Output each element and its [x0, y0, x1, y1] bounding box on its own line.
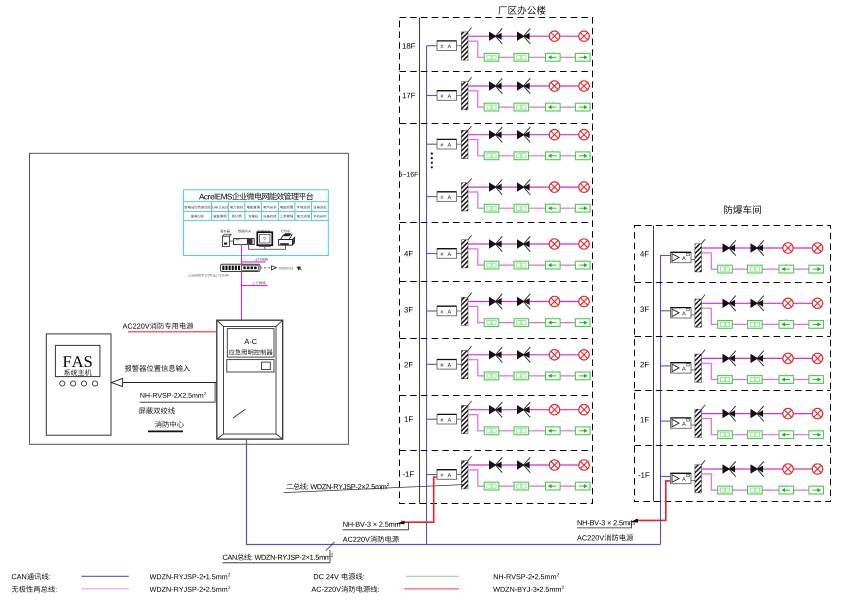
exit sign 18F-G3	[546, 53, 561, 61]
wire lamp row W3F	[702, 302, 824, 304]
wire riser branch -1F	[427, 474, 438, 476]
emergency lamp W3F-L2	[812, 298, 822, 308]
wire device to wall	[457, 310, 462, 312]
exit sign W4F-G3	[779, 265, 794, 273]
internet dashed arrow	[260, 267, 272, 269]
wire exit-sign row 17F	[468, 91, 590, 107]
FAS indicator 1	[60, 381, 65, 386]
arrow workshop supply	[631, 519, 639, 523]
exit sign 5-16F-b-G2	[514, 204, 529, 212]
FAS indicator 2	[71, 381, 76, 386]
label fire center	[155, 421, 184, 428]
cell 电力运维	[297, 215, 310, 218]
exit sign W4F-G2	[748, 265, 763, 273]
label cloud network	[188, 274, 229, 278]
emergency luminaire 2F-E2	[517, 350, 525, 359]
floor divider	[635, 445, 831, 447]
wire riser branch W1F	[660, 420, 671, 422]
FAS indicator 3	[82, 381, 87, 386]
emergency lamp W1F-L2	[812, 408, 822, 418]
floor divider	[635, 390, 831, 392]
title workshop	[724, 205, 761, 214]
label AC220V workshop	[577, 534, 633, 541]
distribution device A (W4F)	[671, 252, 692, 262]
wire device to wall	[457, 196, 462, 198]
exit sign 5-16F-b-G1	[484, 204, 499, 212]
exit sign W2F-G1	[718, 376, 733, 384]
exit sign 2F-G3	[546, 372, 561, 380]
building column line	[419, 18, 421, 504]
wire uplink	[241, 245, 243, 321]
cell 电能管理	[247, 206, 260, 209]
wire device to wall	[691, 259, 695, 261]
floor divider	[400, 395, 593, 397]
wire exit-sign row 5-16F-a	[468, 140, 590, 156]
cable gateway-monitor-printer	[249, 245, 286, 250]
exit sign W3F-G1	[718, 321, 733, 329]
legend CAN line	[12, 573, 50, 580]
emergency lamp 3F-L1	[549, 296, 559, 306]
emergency lamp W4F-L1	[783, 243, 793, 253]
wire lamp row 2F	[468, 354, 590, 356]
exit sign 5-16F-b-G3	[546, 204, 561, 212]
exit sign 1F-G4	[575, 427, 590, 435]
wire AC220V office	[404, 477, 437, 522]
cabinet panel 2	[227, 360, 274, 372]
wire device to wall	[691, 424, 695, 426]
floor label 3F w	[640, 307, 648, 313]
exit sign 5-16F-a-G2	[514, 152, 529, 160]
wall mount hatch (1F)	[461, 405, 468, 433]
distribution device A (18F)	[437, 41, 457, 51]
wire riser branch 1F	[427, 418, 438, 420]
wire alarm position signal	[111, 382, 217, 384]
wire exit-sign row 3F	[468, 306, 590, 322]
emergency lamp 4F-L2	[579, 239, 589, 249]
label AC220V office	[343, 536, 399, 543]
wire exit-sign row W1F	[702, 419, 824, 435]
emergency luminaire 1F-E1	[489, 405, 497, 414]
label AC220V dedicated supply	[123, 322, 194, 329]
distribution device A (W-1F)	[671, 473, 692, 483]
emergency luminaire W4F-E2	[751, 243, 759, 252]
wire riser branch W2F	[660, 365, 671, 367]
emergency lamp 17F-L1	[549, 81, 559, 91]
wire riser office building	[426, 46, 428, 545]
floor label 1F w	[641, 417, 649, 422]
signal arrow	[111, 378, 122, 386]
emergency lamp 5-16F-a-L1	[549, 130, 559, 140]
emergency lamp 5-16F-b-L2	[579, 182, 589, 192]
wire device to wall	[691, 369, 695, 371]
emergency luminaire W-1F-E1	[723, 464, 731, 473]
emergency lamp 5-16F-b-L1	[549, 182, 559, 192]
legend AC220V line	[311, 586, 378, 593]
floor label -1F w	[638, 472, 649, 477]
emergency lamp W4F-L2	[812, 243, 822, 253]
cell 变电站综合自动化	[184, 206, 210, 209]
wall mount hatch (17F)	[461, 82, 468, 110]
wire device to wall	[457, 363, 462, 365]
controller cabinet outline	[217, 320, 283, 439]
exit sign W2F-G4	[809, 376, 824, 384]
exit sign W3F-G4	[809, 321, 824, 329]
wire lamp row -1F	[468, 464, 590, 466]
wall mount hatch (W1F)	[695, 409, 702, 437]
exit sign -1F-G4	[575, 482, 590, 490]
exit sign -1F-G2	[514, 482, 529, 490]
emergency luminaire 5-16F-a-E1	[489, 130, 497, 139]
exit sign 4F-G3	[546, 261, 561, 269]
workshop outline	[635, 226, 831, 502]
ethernet switch	[220, 264, 260, 271]
exit sign W1F-G2	[748, 431, 763, 439]
emergency luminaire -1F-E1	[489, 460, 497, 469]
floor divider	[400, 71, 593, 73]
floor divider	[635, 336, 831, 338]
title office building	[498, 6, 545, 15]
wall mount hatch (-1F)	[461, 461, 468, 489]
emergency luminaire 5-16F-b-E1	[489, 182, 497, 191]
wire device to wall	[457, 253, 462, 255]
wire uplink branch upper	[242, 261, 266, 263]
wire lamp row 3F	[468, 301, 590, 303]
emergency lamp W2F-L2	[812, 353, 822, 363]
wire riser branch 5-16F-b	[427, 196, 438, 198]
emergency luminaire 5-16F-b-E2	[517, 182, 525, 191]
wire riser branch 17F	[427, 95, 438, 97]
floor divider	[400, 123, 593, 125]
FAS indicator 4	[92, 381, 97, 386]
floor label 2F	[404, 362, 412, 367]
wire device to wall	[457, 474, 462, 476]
emergency luminaire W3F-E2	[751, 299, 759, 308]
wire AC220V workshop	[637, 481, 671, 521]
exit sign W-1F-G2	[748, 486, 763, 494]
cell 充电桩	[248, 215, 258, 218]
floor label 17F	[403, 93, 416, 98]
label monitor	[258, 230, 271, 233]
distribution device A (17F)	[437, 91, 457, 101]
floor divider	[400, 281, 593, 283]
floor label 18F	[403, 43, 416, 49]
cell 电气安全	[264, 206, 277, 209]
exit sign 4F-G1	[484, 261, 499, 269]
cell 设备检修	[263, 215, 276, 218]
wire lamp row 5-16F-a	[468, 134, 590, 136]
wire lamp row 18F	[468, 35, 590, 37]
cell 工单管理	[280, 215, 293, 218]
wire device to wall	[457, 45, 462, 47]
exit sign 3F-G1	[484, 319, 499, 327]
cell 分布式光伏	[212, 206, 228, 209]
distribution device A (5-16F-b)	[437, 192, 457, 202]
emergency luminaire 3F-E2	[517, 297, 525, 306]
exit sign W3F-G2	[748, 321, 763, 329]
exit sign 3F-G4	[575, 319, 590, 327]
wifi icon	[297, 267, 301, 271]
workshop column line	[653, 226, 655, 502]
emergency luminaire 4F-E1	[489, 239, 497, 248]
emergency lamp W2F-L1	[783, 353, 793, 363]
exit sign 18F-G1	[484, 53, 499, 61]
gateway icon	[234, 239, 255, 245]
label CAN bus cable	[223, 554, 331, 561]
distribution device A (3F)	[437, 306, 457, 316]
floor label 4F	[404, 251, 413, 256]
exit sign W1F-G3	[779, 431, 794, 439]
wall mount hatch (W3F)	[695, 299, 702, 327]
cell 智能照明	[213, 215, 226, 218]
label NH-RVSP cable	[140, 393, 203, 398]
wire exit-sign row 2F	[468, 360, 590, 376]
emergency lamp 4F-L1	[549, 239, 559, 249]
label NH-BV office	[343, 522, 400, 527]
emergency luminaire 18F-E1	[489, 32, 497, 41]
wire exit-sign row 1F	[468, 415, 590, 431]
NH-RVSP leader	[140, 383, 215, 403]
emergency luminaire W1F-E2	[751, 409, 759, 418]
wall mount hatch (W4F)	[695, 244, 702, 272]
distribution device A (-1F)	[437, 470, 457, 480]
wire lamp row W4F	[702, 247, 824, 249]
exit sign 17F-G1	[484, 103, 499, 111]
emergency luminaire -1F-E2	[517, 460, 525, 469]
label NH-BV workshop	[578, 520, 635, 525]
wire AC220V dedicated supply	[128, 331, 217, 333]
distribution device A (W2F)	[671, 363, 692, 373]
wire riser branch 2F	[427, 363, 438, 365]
wire exit-sign row W-1F	[702, 474, 824, 490]
printer icon	[281, 235, 293, 240]
floor label 3F	[404, 307, 412, 313]
emergency lamp W-1F-L2	[812, 464, 822, 474]
label uplink upper	[255, 258, 268, 261]
emergency lamp -1F-L2	[579, 460, 589, 470]
label shielded pair	[139, 407, 175, 414]
floor divider	[635, 282, 831, 284]
floor label -1F	[403, 471, 414, 476]
exit sign W-1F-G4	[809, 486, 824, 494]
emergency luminaire W1F-E1	[723, 409, 731, 418]
distribution device A (1F)	[437, 414, 457, 424]
distribution device A (W1F)	[671, 418, 692, 428]
wire lamp row 5-16F-b	[468, 186, 590, 188]
exit sign W2F-G3	[779, 376, 794, 384]
exit sign W1F-G1	[718, 431, 733, 439]
wire CAN bus	[247, 439, 661, 544]
wire exit-sign row -1F	[468, 470, 590, 486]
emergency luminaire 1F-E2	[517, 405, 525, 414]
repetition dots	[431, 152, 433, 154]
exit sign 18F-G4	[575, 53, 590, 61]
exit sign W2F-G2	[748, 376, 763, 384]
cabinet panel A-C	[227, 329, 274, 358]
wire lamp row W1F	[702, 413, 824, 415]
emergency luminaire W2F-E2	[751, 354, 759, 363]
exit sign 2F-G1	[484, 372, 499, 380]
floor label 1F	[405, 416, 413, 421]
emergency lamp W3F-L1	[783, 298, 793, 308]
cell 电力监控	[230, 206, 243, 209]
label Internet	[279, 267, 292, 270]
wire exit-sign row W4F	[702, 253, 824, 269]
exit sign 17F-G2	[514, 103, 529, 111]
wire device to wall	[691, 480, 695, 482]
cell 能耗分析	[191, 215, 204, 218]
legend DC24V line	[314, 573, 364, 580]
wire exit-sign row W2F	[702, 363, 824, 379]
server tower icon	[223, 234, 232, 236]
exit sign 3F-G3	[546, 319, 561, 327]
wall mount hatch (W2F)	[695, 354, 702, 382]
emergency lamp 3F-L2	[579, 296, 589, 306]
AcrelEMS platform box	[184, 190, 329, 256]
emergency lamp 1F-L1	[549, 405, 559, 415]
emergency luminaire W2F-E1	[723, 354, 731, 363]
legend two-bus line	[12, 586, 57, 593]
exit sign W3F-G3	[779, 321, 794, 329]
emergency lamp 17F-L2	[579, 81, 589, 91]
floor divider	[400, 450, 593, 452]
wire lamp row W-1F	[702, 468, 824, 470]
enclosure control room box	[30, 153, 349, 444]
exit sign -1F-G3	[546, 482, 561, 490]
wire device to wall	[457, 143, 462, 145]
exit sign 5-16F-a-G1	[484, 152, 499, 160]
floor label 4F w	[640, 251, 649, 256]
wire riser branch W3F	[660, 310, 671, 312]
distribution device A (W3F)	[671, 308, 692, 318]
exit sign W4F-G4	[809, 265, 824, 273]
exit sign 1F-G1	[484, 427, 499, 435]
exit sign 2F-G2	[514, 372, 529, 380]
exit sign 5-16F-a-G4	[575, 152, 590, 160]
wire riser branch 4F	[427, 253, 438, 255]
wall mount hatch (2F)	[461, 351, 468, 379]
wire riser branch W4F	[660, 255, 671, 257]
wire exit-sign row W3F	[702, 308, 824, 324]
platform title	[199, 192, 313, 200]
wall mount hatch (5-16F-b)	[461, 183, 468, 211]
floor divider	[400, 338, 593, 340]
wall mount hatch (18F)	[461, 32, 468, 60]
exit sign 4F-G4	[575, 261, 590, 269]
emergency luminaire W3F-E1	[723, 299, 731, 308]
exit sign 18F-G2	[514, 53, 529, 61]
wire uplink branch lower	[242, 285, 268, 287]
emergency lamp 2F-L2	[579, 350, 589, 360]
cell 设备巡检	[313, 206, 326, 209]
exit sign -1F-G1	[484, 482, 499, 490]
exit sign 1F-G3	[546, 427, 561, 435]
floor label 2F w	[640, 362, 648, 367]
wire riser branch 3F	[427, 310, 438, 312]
distribution device A (4F)	[437, 249, 457, 259]
wire riser branch W-1F	[660, 476, 671, 478]
emergency lamp 1F-L2	[579, 405, 589, 415]
arrow office supply	[397, 521, 405, 525]
wire exit-sign row 4F	[468, 249, 590, 265]
wire riser branch 5-16F-a	[427, 143, 438, 145]
label server	[220, 230, 230, 233]
wire device to wall	[457, 418, 462, 420]
emergency luminaire 3F-E1	[489, 297, 497, 306]
emergency lamp 2F-L1	[549, 350, 559, 360]
two-bus leader	[284, 485, 463, 493]
exit sign W-1F-G1	[718, 486, 733, 494]
wire lamp row 1F	[468, 409, 590, 411]
floor divider	[400, 222, 593, 224]
exit sign 5-16F-b-G4	[575, 204, 590, 212]
wire exit-sign row 18F	[468, 41, 590, 57]
exit sign 17F-G4	[575, 103, 590, 111]
wire exit-sign row 5-16F-b	[468, 192, 590, 208]
exit sign W1F-G4	[809, 431, 824, 439]
FAS host cabinet	[46, 334, 111, 435]
cell 手机APP	[313, 215, 326, 218]
exit sign 17F-G3	[546, 103, 561, 111]
distribution device A (5-16F-a)	[437, 139, 457, 149]
emergency luminaire W-1F-E2	[751, 464, 759, 473]
emergency luminaire 5-16F-a-E2	[517, 130, 525, 139]
label printer	[281, 230, 291, 233]
office building outline	[400, 18, 593, 504]
emergency lamp -1F-L1	[549, 460, 559, 470]
cell 环境监测	[297, 206, 310, 209]
exit sign 1F-G2	[514, 427, 529, 435]
emergency lamp W1F-L1	[783, 408, 793, 418]
label gateway	[238, 230, 251, 233]
cabinet door handle	[233, 409, 245, 418]
wire device to wall	[457, 95, 462, 97]
exit sign 4F-G2	[514, 261, 529, 269]
table grid	[184, 201, 329, 203]
emergency lamp W-1F-L1	[783, 464, 793, 474]
emergency luminaire 4F-E2	[517, 239, 525, 248]
wall mount hatch (5-16F-a)	[461, 130, 468, 158]
monitor icon	[257, 232, 272, 245]
wall mount hatch (4F)	[461, 240, 468, 268]
label two-bus cable	[286, 483, 386, 490]
cell 预付费	[232, 215, 242, 218]
wall mount hatch (3F)	[461, 297, 468, 325]
cable server-gateway	[230, 240, 234, 242]
wire lamp row W2F	[702, 357, 824, 359]
distribution device A (2F)	[437, 360, 457, 370]
exit sign 5-16F-a-G3	[546, 152, 561, 160]
emergency luminaire 17F-E1	[489, 81, 497, 90]
emergency lamp 18F-L1	[549, 31, 559, 41]
emergency lamp 5-16F-a-L2	[579, 130, 589, 140]
emergency luminaire W4F-E1	[723, 243, 731, 252]
wire lamp row 4F	[468, 243, 590, 245]
emergency lamp 18F-L2	[579, 31, 589, 41]
wall mount hatch (W-1F)	[695, 465, 702, 493]
exit sign 2F-G4	[575, 372, 590, 380]
wire riser workshop	[660, 256, 662, 545]
label uplink lower	[252, 281, 265, 284]
wire device to wall	[691, 314, 695, 316]
emergency luminaire 2F-E1	[489, 350, 497, 359]
exit sign 3F-G2	[514, 319, 529, 327]
wire riser branch 18F	[427, 45, 438, 47]
emergency luminaire 17F-E2	[517, 81, 525, 90]
emergency luminaire 18F-E2	[517, 32, 525, 41]
label alarm input	[125, 365, 190, 372]
exit sign W-1F-G3	[779, 486, 794, 494]
wire lamp row 17F	[468, 85, 590, 87]
